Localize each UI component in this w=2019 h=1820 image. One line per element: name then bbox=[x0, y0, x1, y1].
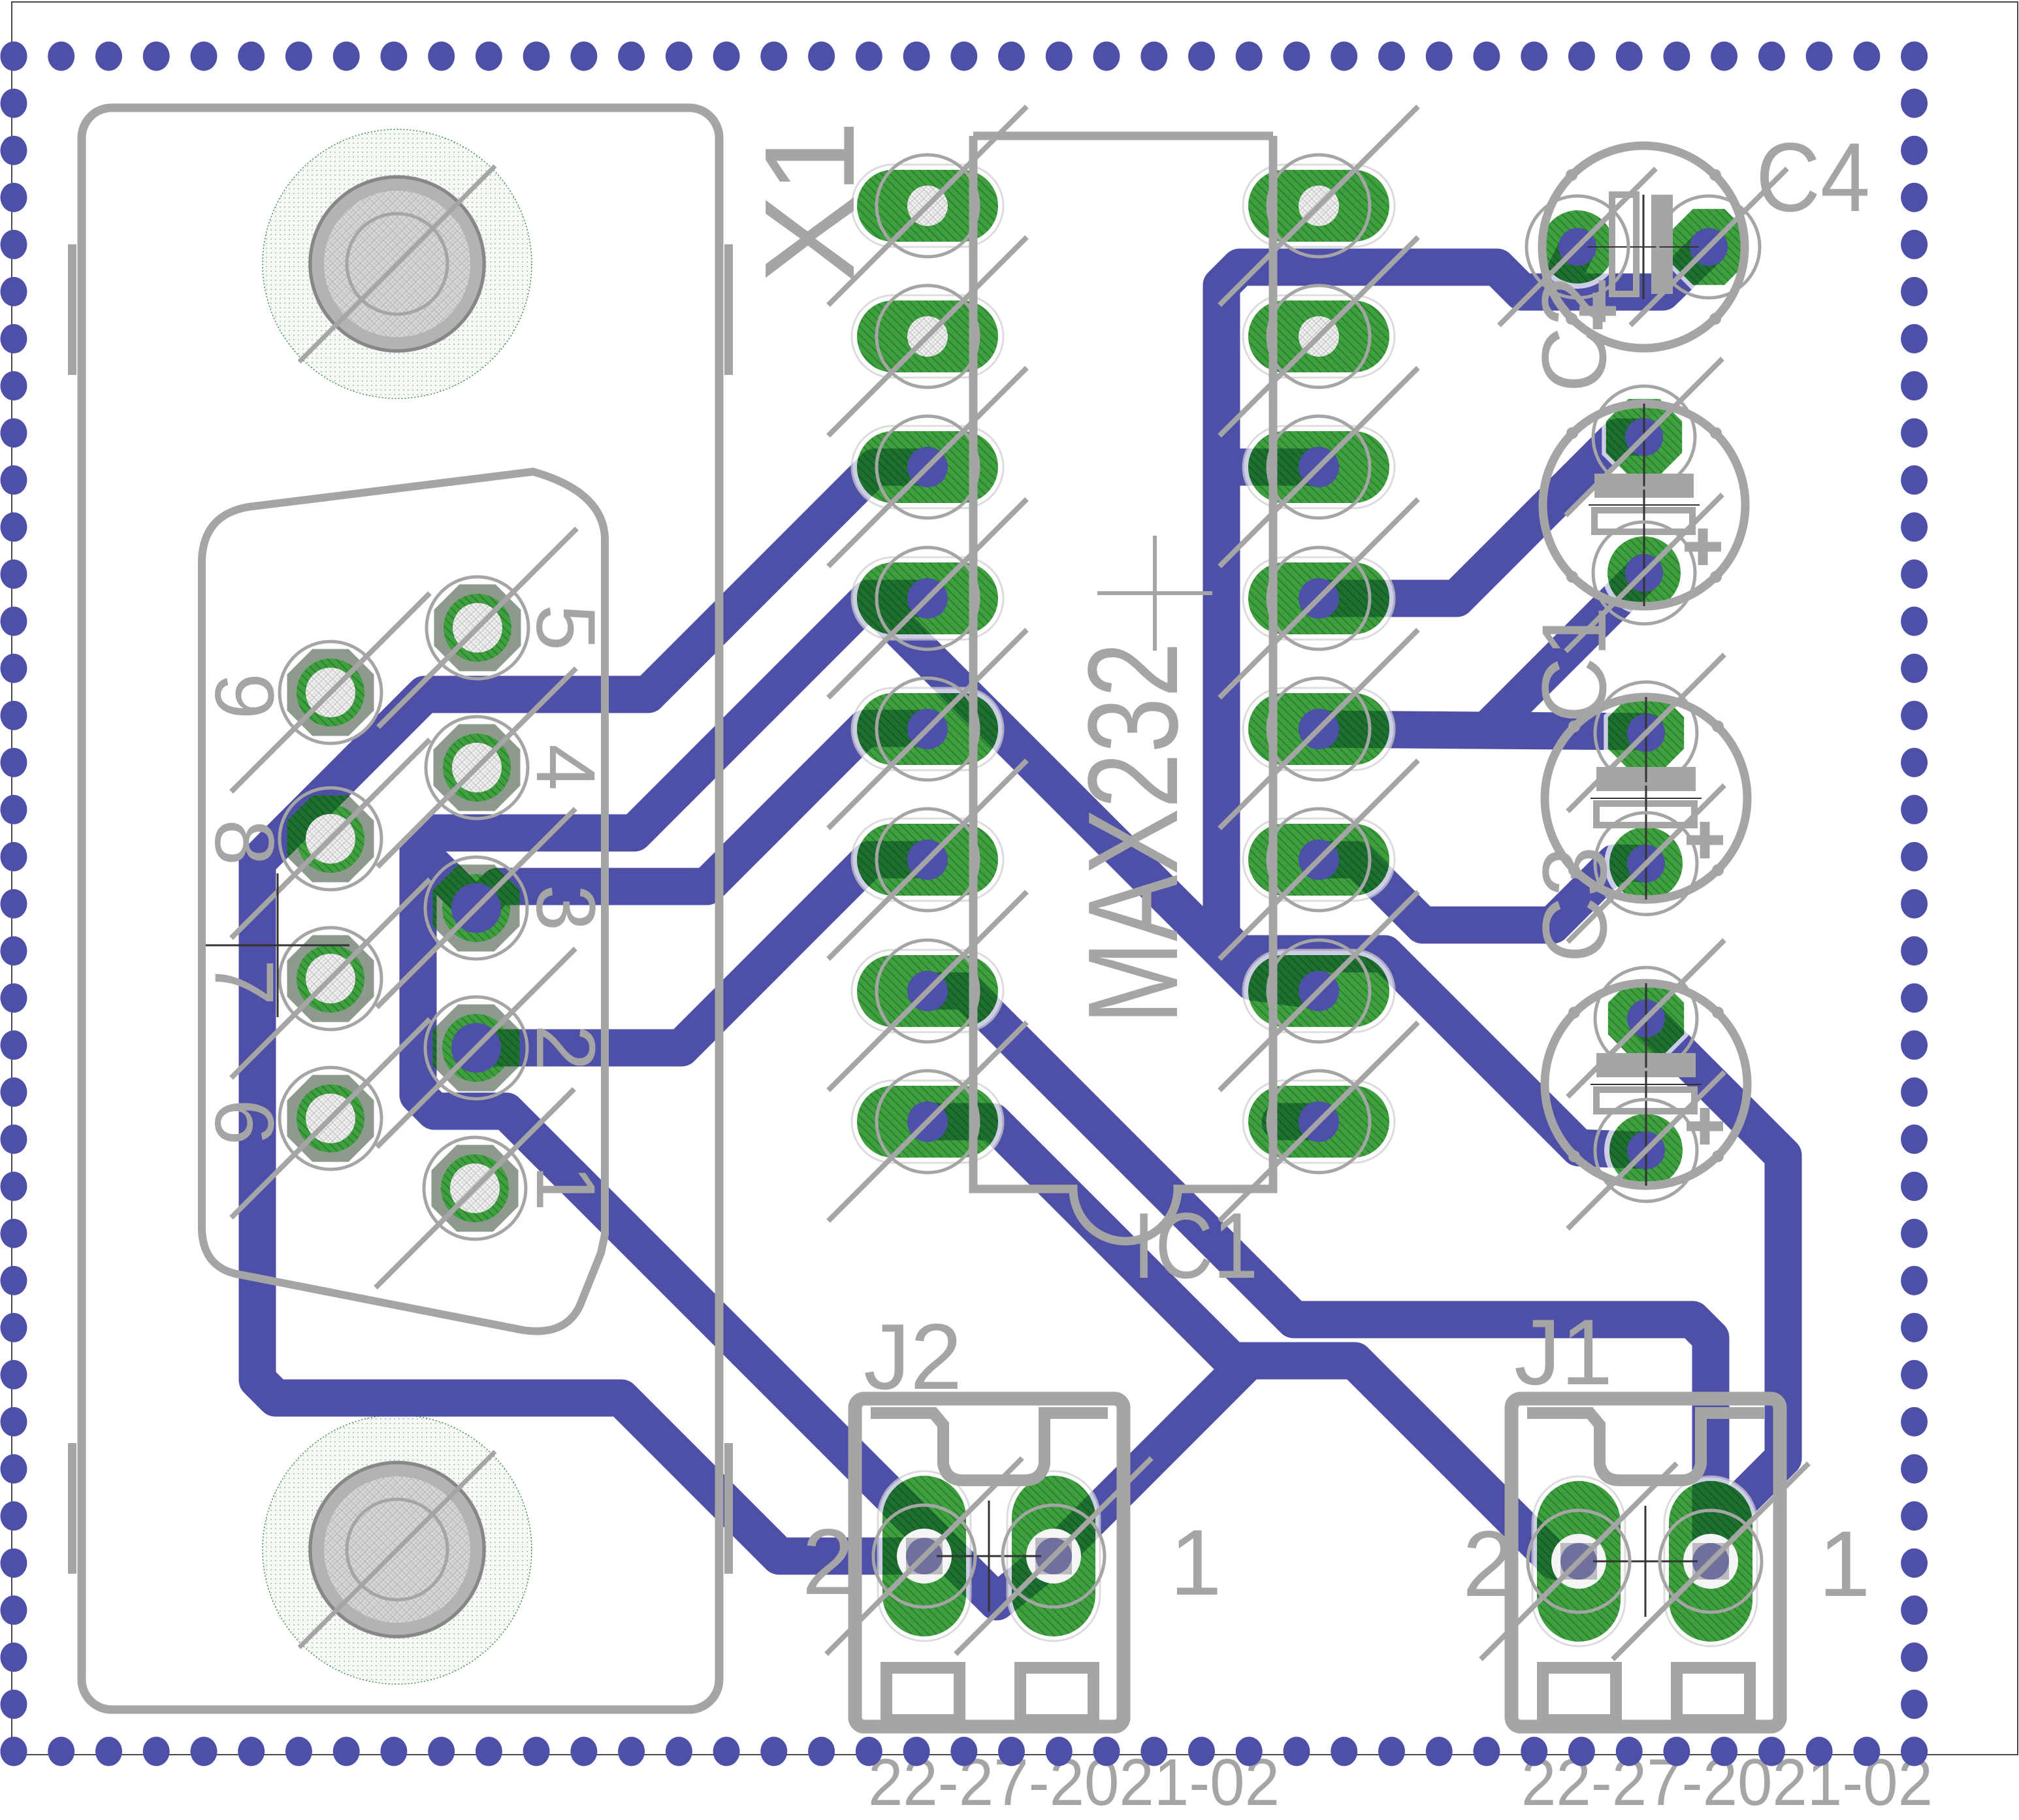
capacitor pad C3 bottom bbox=[1604, 822, 1688, 905]
connector J1 feet bbox=[1543, 1668, 1616, 1720]
svg-text:C3: C3 bbox=[1523, 846, 1626, 963]
IC1 pad 9 annulus mark bbox=[1268, 1071, 1370, 1173]
svg-text:5: 5 bbox=[519, 604, 612, 651]
wire branch to C2 bottom bbox=[1488, 573, 1644, 729]
wire IC1 pin11 to C3 bottom bbox=[1319, 860, 1646, 925]
wire IC1 pin3 to J2.2 bbox=[257, 467, 928, 1556]
wire J2.2 to J2.1 link bbox=[960, 1556, 1054, 1602]
IC1 pad 2 drill bbox=[907, 316, 948, 357]
svg-text:4: 4 bbox=[519, 744, 612, 790]
IC1 pad 12 annulus mark bbox=[1268, 678, 1370, 780]
DB9 pad 8 drill bbox=[306, 814, 355, 864]
IC1 pad 8 annulus mark bbox=[877, 1071, 978, 1173]
svg-text:C2: C2 bbox=[1523, 276, 1625, 393]
J2 pad 2 bbox=[878, 1471, 971, 1641]
IC1 origin crosshair bbox=[1097, 536, 1212, 651]
capacitor C2 plate marks bbox=[1594, 474, 1694, 498]
connector J1 outline bbox=[1511, 1399, 1780, 1727]
capacitor pad C4 top drill bbox=[1627, 999, 1665, 1037]
connector DB9 shield outline bbox=[82, 108, 719, 1710]
IC1 pad 11 annulus mark bbox=[1268, 809, 1370, 911]
IC1 pad 14 drill bbox=[1299, 447, 1339, 487]
mounting hole at (608,2372) bbox=[308, 1461, 486, 1638]
IC1 pad 8 drill bbox=[907, 1101, 948, 1142]
IC1 pad 5 bbox=[852, 688, 1003, 770]
IC1 pad 16 drill bbox=[1299, 186, 1339, 226]
IC1 pad 9 drill bbox=[1299, 1101, 1339, 1142]
svg-text:IC1: IC1 bbox=[1133, 1194, 1258, 1298]
capacitor C4 plate marks bbox=[1596, 1053, 1696, 1077]
DB9 pad 1 drill bbox=[450, 1163, 500, 1213]
capacitor pad C1 right annulus mark bbox=[1658, 196, 1760, 298]
mounting hole at (608,404) bbox=[308, 175, 486, 353]
wire rail stub to C1 left pad bbox=[1555, 247, 1577, 292]
capacitor pad C2 bottom annulus mark bbox=[1593, 522, 1695, 624]
IC1 pad 7 annulus mark bbox=[877, 940, 978, 1042]
IC1 pad 10 drill bbox=[1299, 971, 1339, 1011]
DB9 pad 7 annulus mark bbox=[280, 928, 381, 1030]
mounting hole keepout ring at (608,404) bbox=[263, 129, 532, 398]
DB9 connector pad 5 bbox=[434, 585, 521, 672]
capacitor C2 body circle bbox=[1543, 404, 1745, 606]
IC1 pad 15 drill bbox=[1299, 316, 1339, 357]
DB9 connector pad 3 bbox=[433, 865, 520, 952]
J1 pad 1 drill bbox=[1683, 1534, 1738, 1589]
J2 pad 2 drill bbox=[897, 1529, 952, 1584]
svg-text:8: 8 bbox=[197, 819, 291, 866]
svg-text:1: 1 bbox=[1818, 1512, 1871, 1616]
J2 pad 1 bbox=[1007, 1471, 1100, 1641]
wire C4 top to J1.1 rail bbox=[1646, 1018, 1783, 1531]
DB9 pad 5 annulus mark bbox=[427, 577, 528, 679]
capacitor C3 body circle bbox=[1545, 697, 1747, 900]
capacitor pad C3 top drill bbox=[1627, 714, 1665, 752]
connector J2 outline bbox=[855, 1399, 1123, 1727]
J1 pad 1 annulus mark bbox=[1660, 1510, 1762, 1612]
connector J1 crosshair bbox=[1593, 1561, 1698, 1563]
J1 pad 2 annulus mark bbox=[1528, 1510, 1630, 1612]
svg-text:6: 6 bbox=[197, 1099, 291, 1145]
svg-text:J2: J2 bbox=[864, 1305, 962, 1409]
wire IC1 pin13 to C2 top bbox=[1319, 437, 1644, 598]
svg-text:J1: J1 bbox=[1514, 1301, 1613, 1405]
J1 pad 2 bbox=[1532, 1476, 1625, 1646]
J2 pad 1 drill bbox=[1026, 1529, 1081, 1584]
capacitor pad C4 top bbox=[1604, 976, 1688, 1060]
IC1 pad 2 annulus mark bbox=[877, 285, 978, 387]
connector J2 crosshair bbox=[937, 1555, 1041, 1557]
svg-text:C4: C4 bbox=[1756, 122, 1870, 232]
capacitor pad C3 bottom annulus mark bbox=[1595, 813, 1697, 915]
IC1 pad 13 drill bbox=[1299, 578, 1339, 619]
IC1 pad 6 bbox=[852, 819, 1003, 901]
capacitor pad C2 top annulus mark bbox=[1593, 386, 1695, 488]
IC1 pad 6 annulus mark bbox=[877, 809, 978, 911]
IC1 pad 11 drill bbox=[1299, 839, 1339, 880]
capacitor pad C1 right drill bbox=[1690, 228, 1728, 266]
DB9 pad 2 drill bbox=[451, 1023, 501, 1073]
capacitor pad C1 right bbox=[1666, 204, 1751, 289]
DB9 pad 2 annulus mark bbox=[425, 997, 527, 1099]
wire IC1 pin7 to J1.1 bbox=[926, 991, 1711, 1561]
DB9 mounting tab marks bbox=[68, 244, 76, 375]
DB9 connector pad 7 bbox=[287, 935, 374, 1022]
DB9 origin crosshair bbox=[206, 945, 349, 947]
DB9 pad 9 drill bbox=[306, 668, 355, 717]
svg-text:MAX232: MAX232 bbox=[1061, 642, 1204, 1024]
IC1 pad 1 annulus mark bbox=[877, 155, 978, 257]
IC1 pad 14 annulus mark bbox=[1268, 416, 1370, 518]
capacitor C1 body circle bbox=[1542, 146, 1745, 348]
DB9 pad 9 annulus mark bbox=[280, 642, 381, 743]
DB9 connector pad 8 bbox=[287, 796, 374, 883]
capacitor pad C2 top drill bbox=[1625, 418, 1663, 456]
IC1 pad 15 annulus mark bbox=[1268, 285, 1370, 387]
IC1 pad 14 bbox=[1243, 426, 1395, 508]
wire stub IC1 pin9 bbox=[1280, 1103, 1319, 1141]
wire IC1 pin4 to J2.2 bbox=[418, 598, 960, 1565]
DB9 pad 3 annulus mark bbox=[425, 857, 527, 959]
IC1 pad 2 bbox=[852, 295, 1003, 378]
DB9 connector pad 6 bbox=[287, 1075, 374, 1162]
mounting hole keepout ring at (608,2372) bbox=[263, 1415, 532, 1684]
capacitor C3 plate marks bbox=[1596, 767, 1696, 791]
wire C4 bottom to C1 right rail bbox=[1221, 247, 1709, 1150]
wire rail stub to IC1 pin14 bbox=[1221, 449, 1319, 486]
J1 pad 1 bbox=[1664, 1476, 1757, 1646]
connector J2 feet bbox=[886, 1668, 960, 1720]
IC1 pad 9 bbox=[1243, 1081, 1395, 1163]
IC1 pad 4 annulus mark bbox=[877, 547, 978, 649]
IC1 pad 3 bbox=[852, 426, 1003, 508]
svg-text:1: 1 bbox=[1170, 1511, 1222, 1615]
svg-text:C1: C1 bbox=[1523, 606, 1625, 723]
IC1 pad 16 bbox=[1243, 165, 1395, 247]
IC1 pad 3 annulus mark bbox=[877, 416, 978, 518]
capacitor pad C4 top annulus mark bbox=[1595, 967, 1697, 1069]
DB9 pad 6 drill bbox=[306, 1094, 355, 1143]
IC IC1 body outline (DIP-16) bbox=[973, 136, 1273, 1241]
IC1 pad 10 annulus mark bbox=[1268, 940, 1370, 1042]
copper overlap shading bbox=[257, 247, 1783, 1602]
capacitor pad C1 left drill bbox=[1559, 228, 1596, 266]
IC1 pad 15 bbox=[1243, 295, 1395, 378]
wire DB9.2 to IC1 pin6 bbox=[476, 860, 928, 1048]
wire pin4 net to IC1 pin10 bbox=[869, 598, 1319, 991]
IC1 pad 13 annulus mark bbox=[1268, 547, 1370, 649]
IC1 pad 5 drill bbox=[907, 709, 948, 749]
wire IC1 pin8 to J1.2 bbox=[928, 1122, 1579, 1561]
DB9 pad 7 drill bbox=[306, 954, 355, 1003]
IC1 pad 6 drill bbox=[907, 839, 948, 880]
capacitor C1 plate marks bbox=[1612, 195, 1636, 294]
IC1 pad 7 bbox=[852, 950, 1003, 1032]
DB9 connector pad 4 bbox=[434, 724, 521, 811]
DB9 pad 4 drill bbox=[452, 743, 502, 792]
svg-text:X1: X1 bbox=[738, 120, 881, 284]
IC1 pad 12 drill bbox=[1299, 709, 1339, 749]
DB9 pad 8 annulus mark bbox=[280, 788, 381, 890]
IC1 pad 1 bbox=[852, 165, 1003, 247]
capacitor pad C4 bottom bbox=[1604, 1109, 1688, 1192]
IC1 pad 1 drill bbox=[907, 186, 948, 226]
capacitor C4 body circle bbox=[1545, 983, 1747, 1186]
IC1 pad 5 annulus mark bbox=[877, 678, 978, 780]
wire IC1 pin12 to C3 top bbox=[1319, 729, 1646, 732]
svg-text:3: 3 bbox=[519, 885, 612, 931]
DB9 pad 3 drill bbox=[451, 883, 501, 933]
svg-text:2: 2 bbox=[1462, 1512, 1515, 1616]
wire DB9.3 to IC1 pin5 bbox=[476, 728, 928, 908]
svg-text:2: 2 bbox=[519, 1024, 612, 1071]
DB9 inner D outline bbox=[202, 472, 605, 1331]
wire J2.1 net join bbox=[1054, 1361, 1249, 1556]
IC1 pad 10 bbox=[1243, 950, 1395, 1032]
IC1 pad 3 drill bbox=[907, 447, 948, 487]
svg-text:2: 2 bbox=[802, 1510, 854, 1614]
IC1 pad 16 annulus mark bbox=[1268, 155, 1370, 257]
IC1 pad 8 bbox=[852, 1081, 1003, 1163]
DB9 connector pad 2 bbox=[433, 1005, 520, 1092]
DB9 pad 4 annulus mark bbox=[426, 717, 528, 819]
capacitor pad C3 bottom drill bbox=[1627, 845, 1665, 883]
DB9 pad 6 annulus mark bbox=[280, 1067, 381, 1169]
capacitor pad C2 bottom drill bbox=[1625, 554, 1663, 592]
J1 pad 2 drill bbox=[1551, 1534, 1606, 1589]
IC1 pad 11 bbox=[1243, 819, 1395, 901]
DB9 pad 5 drill bbox=[453, 603, 502, 653]
capacitor pad C2 top bbox=[1602, 395, 1686, 479]
capacitor pad C3 top bbox=[1604, 691, 1688, 775]
IC1 pad 12 bbox=[1243, 688, 1395, 770]
svg-text:7: 7 bbox=[197, 959, 291, 1005]
IC1 pad 13 bbox=[1243, 557, 1395, 640]
IC1 pad 4 bbox=[852, 557, 1003, 640]
DB9 pad 1 annulus mark bbox=[424, 1137, 526, 1239]
J2 pad 1 annulus mark bbox=[1003, 1505, 1105, 1607]
capacitor pad C4 bottom annulus mark bbox=[1595, 1099, 1697, 1201]
IC1 pad 7 drill bbox=[907, 971, 948, 1011]
svg-text:22-27-2021-02: 22-27-2021-02 bbox=[868, 1746, 1280, 1819]
svg-text:9: 9 bbox=[197, 673, 291, 719]
capacitor pad C4 bottom drill bbox=[1627, 1131, 1665, 1169]
svg-text:1: 1 bbox=[519, 1165, 612, 1211]
wire DB9.3 elbow bbox=[418, 850, 476, 908]
IC1 pad 4 drill bbox=[907, 578, 948, 619]
capacitor pad C1 left bbox=[1536, 205, 1619, 289]
capacitor pad C2 bottom bbox=[1602, 531, 1686, 615]
J2 pad 2 annulus mark bbox=[873, 1505, 975, 1607]
DB9 connector pad 1 bbox=[432, 1145, 519, 1232]
DB9 connector pad 9 bbox=[287, 649, 374, 736]
capacitor pad C3 top annulus mark bbox=[1595, 682, 1697, 784]
capacitor pad C1 left annulus mark bbox=[1526, 196, 1628, 298]
